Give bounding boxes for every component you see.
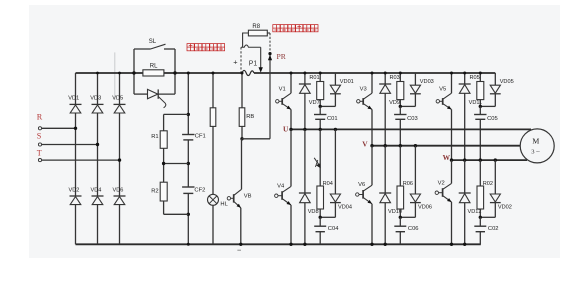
transistor V2 <box>435 180 451 202</box>
resistor R06 (snubber) <box>397 146 413 218</box>
diode VD3 <box>90 95 103 113</box>
svg-text:CF1: CF1 <box>195 134 206 140</box>
svg-text:3 ~: 3 ~ <box>531 149 540 156</box>
wire VD11 leg vertical <box>463 72 466 161</box>
wire V3 emitter to phase bus <box>371 109 373 145</box>
diode VD02 (snubber) <box>479 160 512 219</box>
diode VD11 (freewheel) <box>459 84 482 106</box>
diode VD9 (freewheel) <box>379 84 400 106</box>
svg-text:P1: P1 <box>249 61 258 68</box>
svg-text:VD4: VD4 <box>91 188 102 194</box>
capacitor C01 (snubber) <box>314 106 338 129</box>
wire rectifier leg x=119.5 <box>119 73 121 244</box>
reactor P1 terminal box <box>241 45 263 73</box>
wire V line to motor <box>520 145 522 147</box>
label DC reactor (red) <box>187 44 225 51</box>
svg-text:C02: C02 <box>488 226 499 232</box>
svg-text:VD6: VD6 <box>113 188 124 194</box>
resistor R05 (snubber) <box>470 72 484 107</box>
wire VD9 leg vertical <box>384 72 387 146</box>
svg-text:V1: V1 <box>279 86 286 92</box>
wire VB collector <box>241 139 243 190</box>
svg-text:M: M <box>532 136 539 145</box>
transistor V3 <box>357 86 372 109</box>
wire SL block right vertical <box>174 49 176 94</box>
svg-text:VD05: VD05 <box>500 79 514 85</box>
wire W phase bus <box>443 153 527 162</box>
svg-text:V5: V5 <box>439 86 446 92</box>
svg-text:VD12: VD12 <box>468 209 482 215</box>
svg-text:C01: C01 <box>327 116 338 122</box>
node T-leg junction <box>118 158 121 161</box>
wire V1 collector from top bus <box>290 72 293 94</box>
wire HL chain vertical <box>212 72 215 245</box>
transistor VB <box>227 189 251 208</box>
diode VD01 (snubber) <box>319 73 354 108</box>
node R-leg junction <box>74 127 77 130</box>
resistor R2 <box>151 182 167 201</box>
wire V phase bus <box>362 139 520 148</box>
transistor V5 <box>436 86 451 109</box>
svg-text:C05: C05 <box>487 116 498 122</box>
resistor R04 (snubber) <box>317 129 333 217</box>
wire VD12 leg vertical <box>463 160 466 246</box>
node R input terminal <box>37 112 43 130</box>
wire V2 emitter to bottom bus <box>450 202 453 246</box>
wire R1R2 chain <box>162 114 188 214</box>
capacitor CF1 <box>182 134 206 140</box>
svg-text:R06: R06 <box>403 181 413 187</box>
svg-text:−: − <box>237 245 242 254</box>
capacitor C02 (snubber) <box>474 217 498 244</box>
svg-text:R05: R05 <box>470 75 480 81</box>
svg-text:V3: V3 <box>360 86 367 92</box>
svg-text:C06: C06 <box>408 226 419 232</box>
svg-text:U: U <box>283 125 289 134</box>
thyristor (bypass) <box>134 89 175 107</box>
wire faint vertical guide <box>114 52 116 99</box>
transistor V4 <box>275 183 291 205</box>
resistor R01 (snubber) <box>309 72 323 107</box>
svg-text:+: + <box>233 57 237 66</box>
svg-text:VD03: VD03 <box>420 79 434 85</box>
node SL block bus joints <box>132 71 176 74</box>
node S-leg junction <box>96 143 99 146</box>
wire VD7 leg vertical <box>303 72 306 130</box>
wire top DC bus (P rail) <box>76 70 496 75</box>
svg-text:VD06: VD06 <box>418 205 432 211</box>
wire R8 left lead <box>243 33 249 47</box>
svg-text:V2: V2 <box>438 180 445 186</box>
diode VD6 <box>113 188 126 205</box>
resistor R02 (snubber) <box>477 160 493 217</box>
svg-text:VD1: VD1 <box>68 95 79 101</box>
diode VD1 <box>68 95 81 113</box>
svg-text:S: S <box>37 131 42 140</box>
svg-text:VD01: VD01 <box>340 79 354 85</box>
svg-text:VD9: VD9 <box>389 100 400 106</box>
svg-text:V4: V4 <box>277 183 285 189</box>
wire SL block left vertical <box>133 49 135 94</box>
resistor RL <box>143 64 164 77</box>
svg-text:R8: R8 <box>252 24 260 30</box>
capacitor C04 (snubber) <box>314 217 339 244</box>
wire V4 emitter to bottom bus <box>289 205 292 246</box>
svg-text:R2: R2 <box>151 189 158 195</box>
wire phase T input line <box>42 159 120 161</box>
svg-text:VD04: VD04 <box>338 205 352 211</box>
wire rectifier leg x=75.5 <box>75 73 77 244</box>
svg-text:R04: R04 <box>323 181 333 187</box>
svg-text:RL: RL <box>150 64 158 70</box>
node rectifier top bus joints <box>96 72 121 75</box>
label external braking resistor (red) <box>273 25 318 32</box>
capacitor C05 (snubber) <box>474 106 498 160</box>
svg-text:R: R <box>37 112 43 121</box>
wire V3 collector from top bus <box>371 72 374 94</box>
diode VD5 <box>112 95 125 113</box>
wire V6 emitter to bottom bus <box>370 204 373 246</box>
diode VD12 (freewheel) <box>459 193 482 215</box>
diode VD04 (snubber) <box>319 129 353 219</box>
wire U line to motor <box>530 128 532 130</box>
svg-text:R02: R02 <box>483 181 493 187</box>
capacitor C06 (snubber) <box>394 217 418 244</box>
lamp HL <box>208 194 229 207</box>
svg-text:T: T <box>37 149 42 158</box>
wire phase S input line <box>42 144 98 146</box>
resistor RB <box>239 108 254 127</box>
node current arrow marker <box>314 158 320 168</box>
capacitor CF2 <box>182 187 205 193</box>
diode VD06 (snubber) <box>399 146 432 219</box>
switch SL <box>134 39 175 49</box>
wire VD10 leg vertical <box>384 146 387 246</box>
wire VD8 leg vertical <box>303 129 306 246</box>
svg-text:V6: V6 <box>358 182 365 188</box>
wire V4 collector from phase bus <box>290 129 292 186</box>
wire rectifier leg x=97.5 <box>97 73 99 244</box>
node S input terminal <box>37 131 42 146</box>
transistor V1 <box>276 86 291 109</box>
svg-text:VB: VB <box>244 193 252 199</box>
wire V5 emitter to phase bus <box>451 109 453 160</box>
motor M 3~ <box>520 129 554 163</box>
diode VD05 (snubber) <box>479 73 514 108</box>
svg-text:R03: R03 <box>390 75 400 81</box>
wire phase R input line <box>42 127 76 129</box>
wire RB chain vertical <box>240 72 243 141</box>
resistor R1 <box>151 131 167 149</box>
resistor R8 <box>248 24 267 36</box>
diode VD8 (freewheel) <box>299 193 319 215</box>
svg-text:CF2: CF2 <box>194 187 205 193</box>
svg-text:VD5: VD5 <box>112 95 123 101</box>
resistor R03 (snubber) <box>390 72 404 107</box>
wire V6 collector from phase bus <box>371 146 373 186</box>
svg-text:VD3: VD3 <box>90 95 101 101</box>
wire V2 collector from phase bus <box>451 160 453 183</box>
svg-text:RB: RB <box>246 114 254 120</box>
wire bottom DC bus (N rail) <box>76 243 481 245</box>
svg-text:HL: HL <box>220 202 228 208</box>
diode VD10 (freewheel) <box>379 193 402 215</box>
wire VB emitter <box>239 208 242 246</box>
svg-text:VD7: VD7 <box>309 100 320 106</box>
diode VD2 <box>69 188 82 205</box>
resistor (HL series) <box>210 108 216 127</box>
capacitor C03 (snubber) <box>394 106 418 145</box>
svg-text:VD8: VD8 <box>308 209 319 215</box>
svg-text:V: V <box>362 139 368 148</box>
wire U phase bus <box>283 125 531 134</box>
wire V1 emitter to phase bus <box>290 109 292 129</box>
svg-text:VD02: VD02 <box>498 205 512 211</box>
svg-text:VD2: VD2 <box>69 188 80 194</box>
diode VD4 <box>91 188 104 205</box>
wire R8 right lead to PR <box>267 33 272 139</box>
diode VD7 (freewheel) <box>299 84 320 106</box>
svg-text:C03: C03 <box>407 116 418 122</box>
wire PR to RB junction <box>242 138 270 140</box>
wire V5 collector from top bus <box>450 72 453 94</box>
svg-text:SL: SL <box>149 39 157 45</box>
svg-text:C04: C04 <box>328 226 339 232</box>
wire CF chain vertical <box>187 72 190 246</box>
svg-text:R1: R1 <box>151 134 158 140</box>
diode VD03 (snubber) <box>399 73 434 108</box>
node T input terminal <box>37 149 42 162</box>
svg-text:R01: R01 <box>309 75 319 81</box>
svg-text:W: W <box>443 153 451 162</box>
svg-text:PR: PR <box>277 52 287 61</box>
transistor V6 <box>356 182 372 204</box>
